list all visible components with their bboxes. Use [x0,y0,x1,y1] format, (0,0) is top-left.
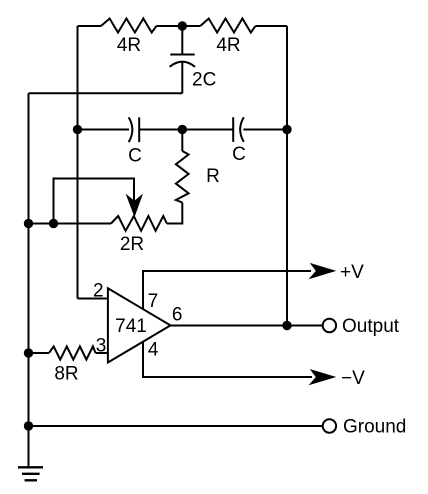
wire twin-T mid line center [139,129,233,131]
node 8R junction [24,348,33,357]
svg-text:4R: 4R [216,35,240,56]
node 2R line left junction [24,219,33,228]
wire R top lead [181,130,183,152]
wire right rail (top rail to output node) [286,26,288,326]
capacitor C (right) [233,117,244,142]
svg-text:2C: 2C [192,70,216,91]
svg-text:C: C [232,144,246,165]
wire 2C top lead [181,26,183,55]
op-amp U1 741 [108,288,171,362]
resistor 4R (left) [101,19,156,33]
wire op-amp pin 2 lead [78,298,108,300]
resistor 4R (right) [200,19,255,33]
wire R bottom lead to 2R right end [167,203,183,224]
svg-text:Ground: Ground [343,417,406,438]
svg-text:R: R [206,166,220,187]
wire pin 4 stub to -V [143,342,312,377]
wire twin-T mid line left [78,129,130,131]
wire op-amp pin 3 lead [96,352,108,354]
svg-text:C: C [128,146,142,167]
wire top rail [78,25,288,27]
svg-text:2R: 2R [120,234,144,255]
2R wiper arrow [126,194,143,218]
svg-text:3: 3 [96,336,107,357]
resistor R [176,151,189,203]
wire left rail vertical [28,93,30,467]
-V arrowhead [309,369,337,385]
node top junction (4R-4R-2C) [178,21,187,30]
svg-text:+V: +V [340,262,364,283]
wire output (pin 6) [171,325,323,327]
svg-text:Output: Output [342,316,400,337]
terminal Ground [323,419,336,432]
node twin-T center junction [178,125,187,134]
ground symbol [18,467,43,480]
svg-text:4R: 4R [117,35,141,56]
svg-text:7: 7 [148,291,159,312]
wire 2R wiper loop [54,179,135,224]
capacitor 2C [170,55,195,67]
wire left branch vertical (node A to op-amp pin 2) [77,26,79,299]
resistor 2R [111,216,167,231]
svg-text:741: 741 [115,316,147,337]
wire pin 7 stub to +V [143,271,311,309]
+V arrowhead [309,263,337,279]
svg-text:8R: 8R [54,364,78,385]
svg-text:6: 6 [172,305,183,326]
wire 2R left lead [29,223,112,225]
svg-text:−V: −V [341,368,365,389]
wire twin-T mid line right [243,129,287,131]
node 2R wiper junction [49,219,58,228]
wire 8R left lead [29,352,50,354]
wire ground line [29,425,323,427]
node twin-T right junction [282,125,291,134]
terminal Output [323,319,336,332]
svg-text:4: 4 [148,340,159,361]
resistor 8R [49,346,96,359]
node ground junction [24,421,33,430]
node output junction [282,321,291,330]
wire left rail horizontal top [29,92,183,94]
wire 2C bottom lead [181,62,183,93]
svg-text:2: 2 [93,281,104,302]
node twin-T left junction [73,125,82,134]
capacitor C (left) [129,117,140,142]
